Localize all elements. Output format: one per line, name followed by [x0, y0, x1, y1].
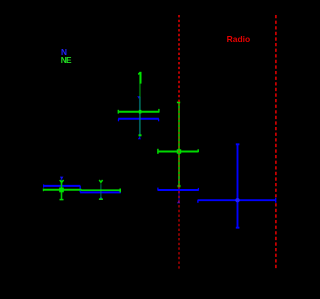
- blue point B4 marker: [235, 198, 239, 202]
- red dashed vertical line R1 lower segment: [178, 186, 180, 269]
- legend entry NE (green): [61, 56, 71, 64]
- blue point B0 x-error bar: [118, 119, 159, 122]
- blue point B4 x-error bar: [198, 198, 276, 203]
- red dashed vertical line R2 lower segment: [275, 203, 277, 269]
- green point G4 x-error bar: [158, 149, 199, 154]
- blue B1/B2 step connector cap: [79, 186, 81, 192]
- blue point B2 x-error bar: [80, 191, 121, 194]
- green point G4 y-error bar: [177, 102, 181, 187]
- green label digit 1 above G3 (drawn glyph): [138, 72, 141, 84]
- red dashed vertical line R1 upper segment: [178, 15, 180, 102]
- blue point B4 y-error bar: [236, 144, 240, 227]
- green point G3 y-error bar: [139, 84, 142, 137]
- green point G1 square marker: [59, 188, 64, 193]
- red dashed vertical line R1 over green segment: [178, 104, 180, 187]
- green point G3 center tick marker: [139, 110, 142, 114]
- blue point B1 x-error bar: [43, 184, 80, 187]
- green point G1 y-error bar: [60, 180, 64, 200]
- green point G2 y-error bar: [99, 180, 103, 199]
- blue point B1 y-error bar: [60, 177, 64, 194]
- green point G4 square marker: [177, 149, 181, 153]
- blue point B3 x-error bar: [158, 188, 199, 191]
- blue point B0 y-error bar: [137, 96, 141, 139]
- green point G3 x-error bar: [118, 109, 159, 114]
- blue point B2 y-error bar: [99, 185, 102, 199]
- green point G1 x-error bar: [43, 189, 81, 192]
- green point G2 x-error bar: [81, 189, 121, 193]
- red label Radio: [227, 35, 251, 44]
- red dashed vertical line R2 upper segment: [275, 15, 277, 197]
- blue point B3 y-error bar: [177, 176, 180, 203]
- legend entry N (blue): [61, 48, 67, 56]
